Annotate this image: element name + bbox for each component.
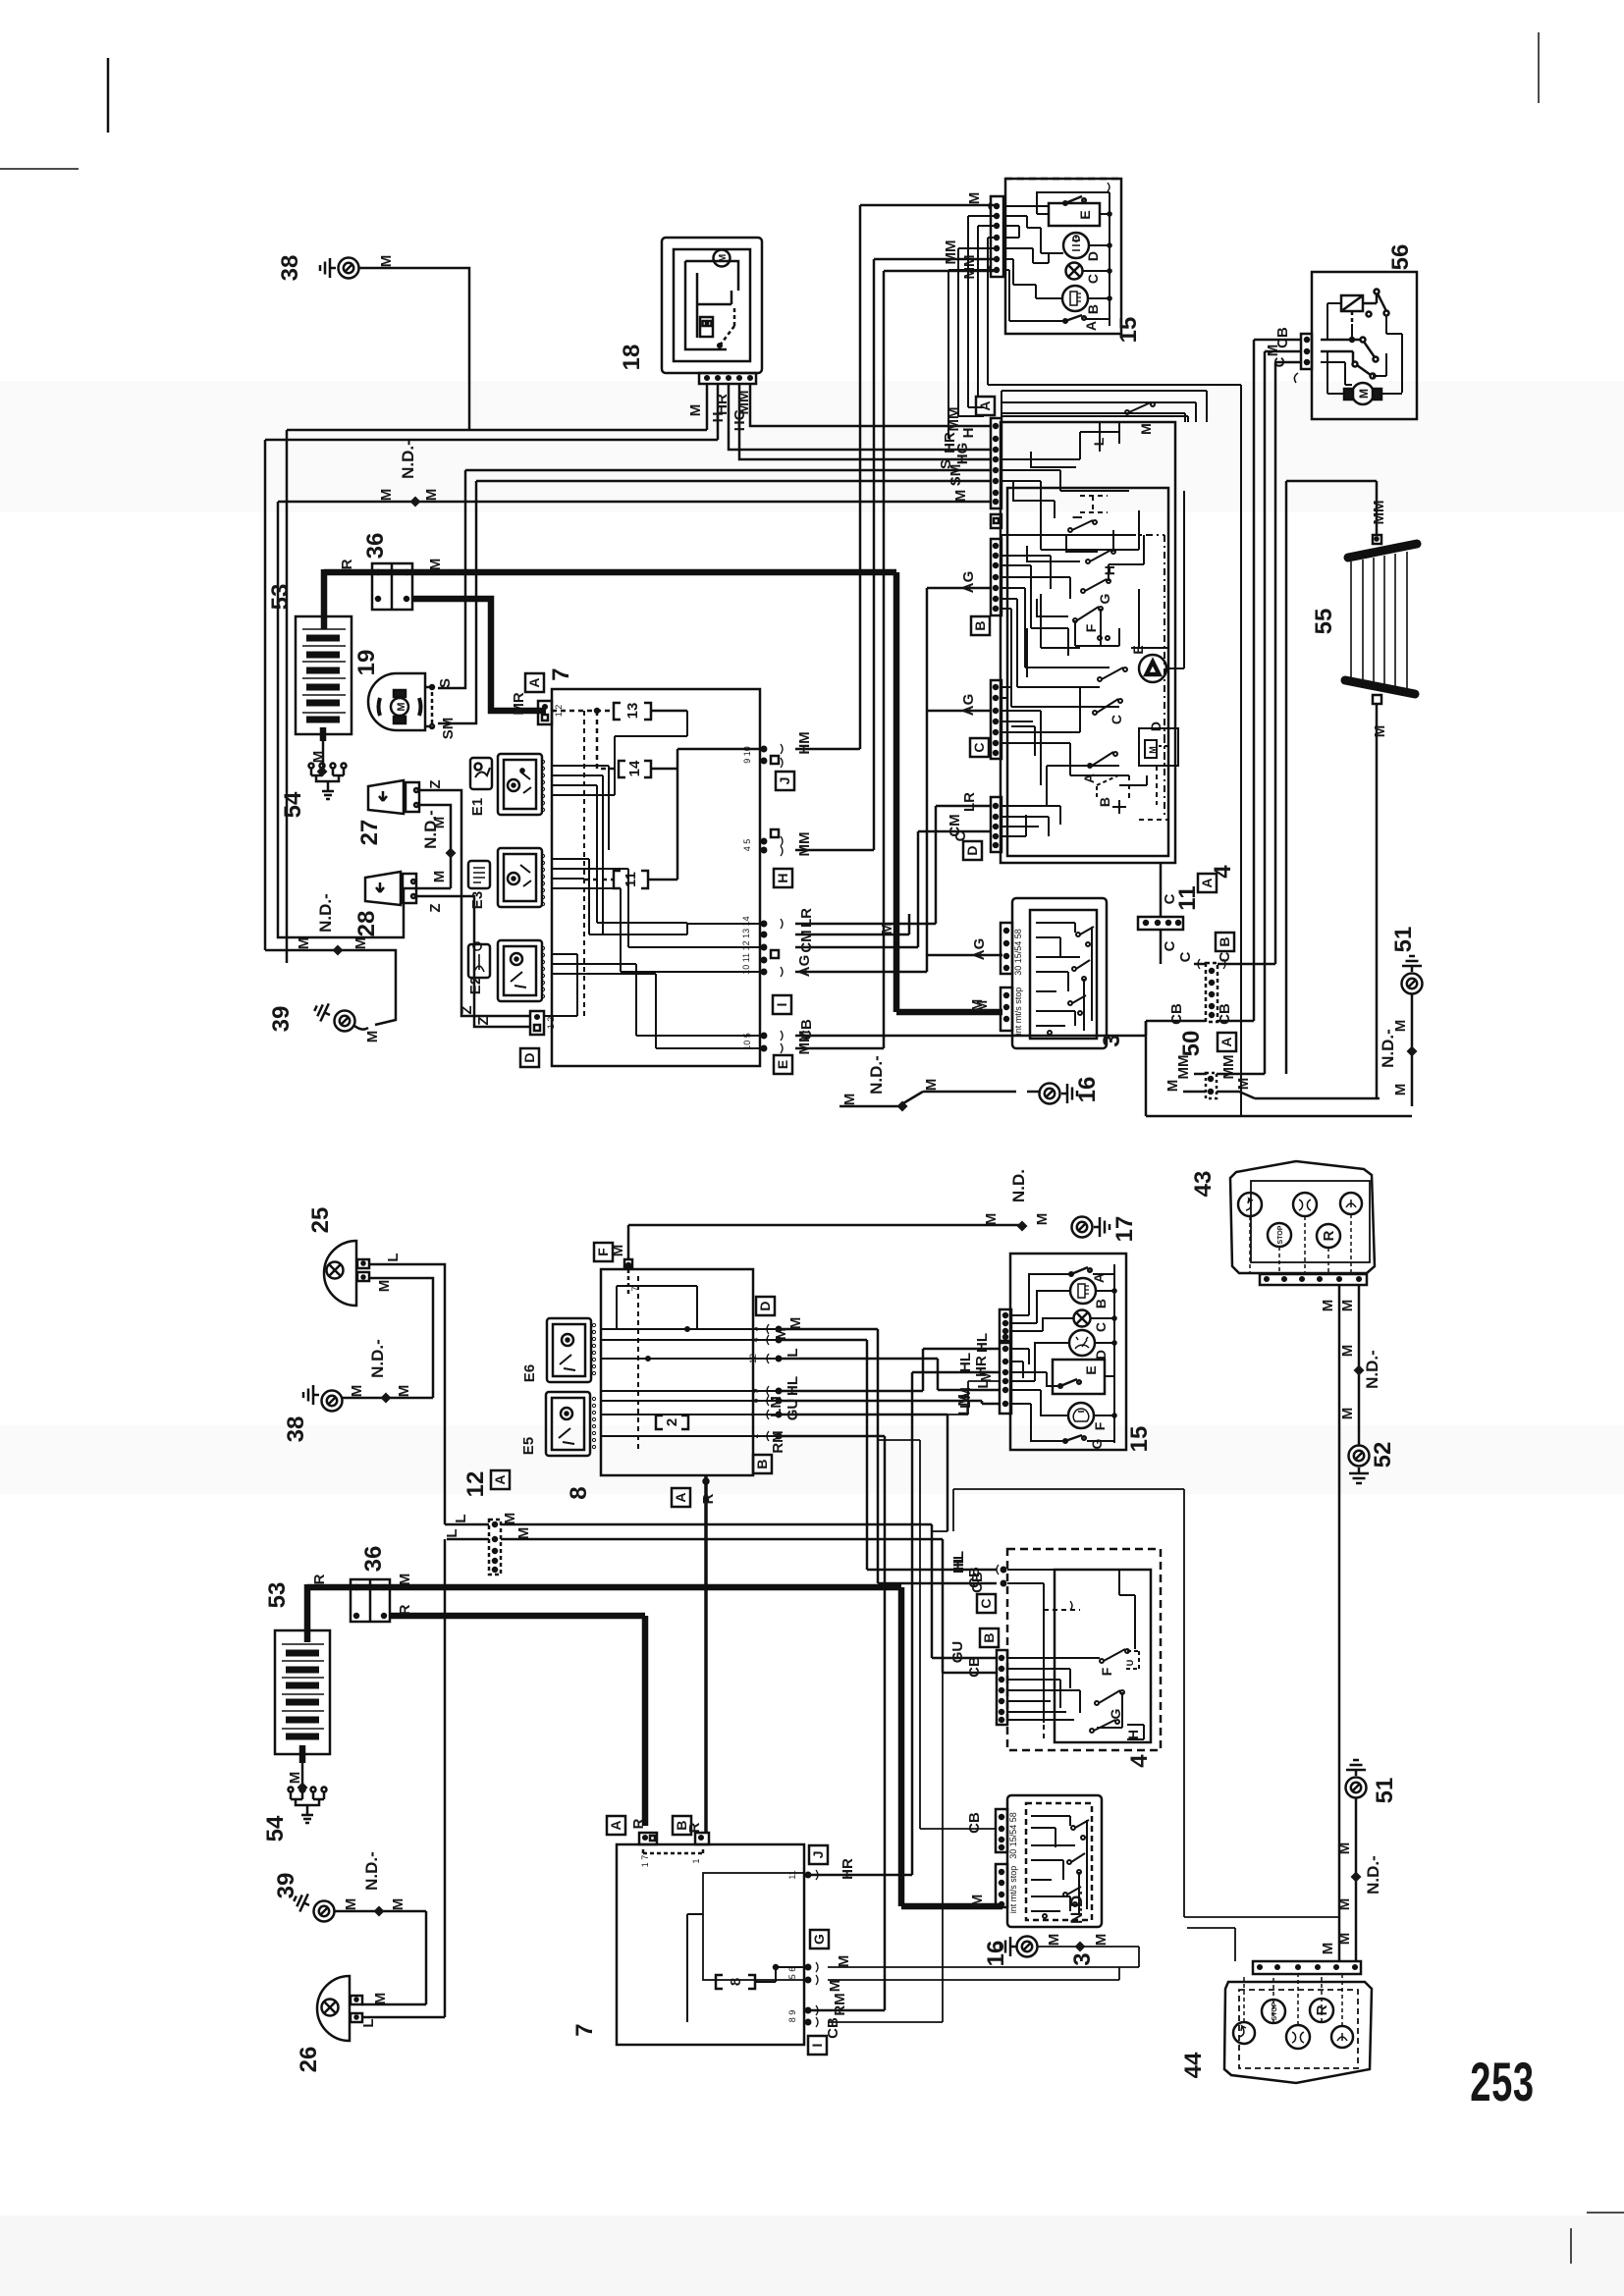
svg-text:26: 26 <box>296 2047 322 2073</box>
headlamp switch 4 (bottom) <box>950 1549 1161 1768</box>
box 7 lower pin 1-2 <box>530 1011 556 1035</box>
svg-text:HR: HR <box>714 394 731 415</box>
thick wire M bus (battery positive rail) <box>324 572 1002 1012</box>
svg-text:M: M <box>1148 746 1158 754</box>
svg-text:CB: CB <box>969 1572 986 1593</box>
svg-text:13: 13 <box>624 703 641 720</box>
wire M from 12 to switch 4 (bottom) <box>501 1524 997 1663</box>
hazard symbol E inside 4 <box>1130 491 1184 682</box>
thick wire battery feed <box>321 569 328 629</box>
thick wire MR from fuse 36 to box 7 <box>412 599 546 711</box>
wire MM from box 7 to 15 <box>795 240 995 857</box>
wire CB to 3 (bottom) <box>878 1440 996 1829</box>
svg-text:M: M <box>378 489 395 502</box>
svg-text:M: M <box>978 1370 995 1383</box>
svg-text:L: L <box>785 1348 801 1357</box>
wire SM from 19 <box>438 481 991 739</box>
crop mark top-left horizontal <box>0 168 79 170</box>
wire HL from box 8 pin 9 to cluster 15 <box>779 1333 1000 1396</box>
horn 27 <box>356 780 419 845</box>
svg-text:M: M <box>364 1031 381 1043</box>
svg-text:I: I <box>1069 515 1085 519</box>
relay box 3 (bottom) <box>966 1795 1102 1966</box>
crop mark bottom-right horizontal <box>1587 2212 1624 2214</box>
svg-text:M: M <box>349 1385 365 1398</box>
license plate lamp 26 <box>296 1976 445 2072</box>
ground point 17 <box>983 1169 1138 1242</box>
svg-text:D: D <box>1148 721 1164 731</box>
svg-text:G: G <box>811 1934 827 1945</box>
svg-text:38: 38 <box>283 1416 309 1443</box>
wire L (long vertical to lamp 26) <box>444 1539 447 2017</box>
battery 53 (top) <box>267 584 352 734</box>
instrument E5 <box>520 1392 596 1456</box>
svg-text:39: 39 <box>268 1006 295 1033</box>
svg-text:N.D.-: N.D.- <box>316 893 335 933</box>
svg-text:AG: AG <box>796 955 813 978</box>
svg-text:44: 44 <box>1180 2052 1207 2078</box>
svg-text:N.D.: N.D. <box>1009 1169 1028 1202</box>
node N.D. junction (39 net) <box>265 893 396 1042</box>
svg-text:4: 4 <box>1126 1754 1153 1768</box>
wire M from 38 <box>287 255 707 430</box>
wire S from 19 <box>437 470 991 688</box>
svg-text:CB: CB <box>966 1812 983 1834</box>
switch 4 pin block A <box>991 418 1001 528</box>
ground point 39 (top) <box>268 999 368 1032</box>
svg-text:17: 17 <box>1111 1216 1138 1243</box>
wire loop from 4 to right vertical <box>1240 385 1242 1116</box>
svg-text:N.D.-: N.D.- <box>1364 1855 1382 1895</box>
connector 50 <box>1177 951 1236 1056</box>
connector 11 C-C <box>1138 863 1234 964</box>
ground point 51 (bottom) <box>1336 1760 1398 1961</box>
svg-text:M: M <box>879 923 895 935</box>
fuse 36 (top) <box>362 533 412 610</box>
svg-text:LM: LM <box>955 1394 972 1415</box>
svg-text:53: 53 <box>267 584 294 611</box>
wire AG riser <box>795 571 1002 978</box>
fuse box 7 (top) <box>520 667 760 1067</box>
svg-text:M: M <box>1320 1300 1336 1312</box>
svg-text:2: 2 <box>750 1433 760 1438</box>
fuse 13 inside box 7 <box>552 703 687 720</box>
svg-text:54: 54 <box>262 1815 289 1842</box>
svg-text:M: M <box>1357 389 1371 399</box>
svg-text:D: D <box>521 1052 537 1062</box>
svg-text:8: 8 <box>566 1486 592 1499</box>
svg-text:A: A <box>673 1492 688 1502</box>
wire LM from box 8 pin 8 to cluster 15 <box>768 1387 1000 1417</box>
svg-text:M: M <box>966 192 983 205</box>
switch 4 lower internals <box>1001 667 1178 836</box>
svg-text:E6: E6 <box>521 1364 538 1382</box>
svg-text:C: C <box>1162 940 1178 951</box>
instrument E2 <box>467 940 545 1001</box>
node N.D. near 16 <box>839 1055 1016 1111</box>
thick wire R bus (bottom) <box>390 1616 645 1826</box>
fuse 11 inside box 7 <box>584 749 760 888</box>
svg-text:36: 36 <box>360 1546 387 1573</box>
box 7 right-edge pins 10-14 <box>741 916 783 977</box>
wires from box 8 pins <box>779 1317 997 1588</box>
svg-text:HL: HL <box>785 1376 801 1396</box>
svg-text:12: 12 <box>462 1471 489 1498</box>
svg-text:M: M <box>952 490 969 503</box>
svg-text:M: M <box>1372 725 1388 738</box>
box 8 internals <box>601 1276 776 1453</box>
wire Z from 28 <box>416 896 530 1027</box>
switch 4 pin block C <box>991 680 1001 759</box>
svg-text:H: H <box>1125 1730 1141 1739</box>
svg-text:M: M <box>396 702 407 711</box>
svg-text:H: H <box>960 428 977 439</box>
svg-text:AG: AG <box>960 571 977 594</box>
svg-text:S: S <box>437 678 454 688</box>
svg-text:R: R <box>700 1493 717 1504</box>
svg-text:E1: E1 <box>469 798 486 816</box>
svg-text:M: M <box>515 1527 532 1540</box>
svg-text:A: A <box>977 400 993 410</box>
svg-text:C: C <box>1093 1322 1109 1332</box>
thick battery feed (bottom) <box>304 1584 311 1642</box>
svg-text:C: C <box>971 742 987 752</box>
svg-text:M: M <box>376 1280 393 1293</box>
wire Z from 27 <box>419 779 530 1016</box>
svg-text:N.D.-: N.D.- <box>399 440 417 479</box>
svg-text:15: 15 <box>1126 1426 1153 1453</box>
svg-text:C: C <box>1085 274 1101 284</box>
svg-text:M: M <box>1034 1213 1051 1226</box>
connector 12 <box>444 1470 532 1575</box>
fuse box 7 (bottom) <box>571 1816 829 2055</box>
svg-text:M: M <box>1392 1084 1409 1096</box>
svg-text:A: A <box>1199 878 1215 887</box>
svg-text:SM: SM <box>440 718 457 740</box>
svg-text:39: 39 <box>273 1873 299 1899</box>
svg-text:HL: HL <box>950 1551 967 1571</box>
svg-text:F: F <box>1092 1421 1108 1430</box>
wire M/HL from box 8 pin 4 <box>773 1328 997 1574</box>
svg-text:B: B <box>754 1459 770 1468</box>
svg-text:M: M <box>423 489 440 502</box>
svg-text:CB: CB <box>966 1656 983 1678</box>
svg-text:int mt/s stop: int mt/s stop <box>1008 1866 1018 1914</box>
svg-text:M: M <box>427 559 444 571</box>
svg-text:B: B <box>1217 936 1232 946</box>
svg-text:Z: Z <box>427 779 444 788</box>
svg-text:9 10: 9 10 <box>742 746 752 764</box>
crop mark bottom-right vertical <box>1570 2228 1572 2264</box>
svg-text:4: 4 <box>1210 865 1236 879</box>
svg-text:F: F <box>1099 1667 1114 1676</box>
horn 28 <box>353 872 416 936</box>
svg-text:11: 11 <box>787 1870 797 1879</box>
svg-text:54: 54 <box>280 791 306 818</box>
svg-text:30 15/54 58: 30 15/54 58 <box>1008 1812 1018 1859</box>
wire M from 43 to ground 52 <box>1339 1285 1381 1445</box>
svg-text:8: 8 <box>750 1398 760 1403</box>
svg-text:MM: MM <box>796 832 813 857</box>
svg-text:B: B <box>1085 304 1101 314</box>
svg-text:M: M <box>983 1213 1000 1226</box>
earth strap junction 54 (top) <box>280 764 347 819</box>
wire M from 27 / N.D. junction to 28 <box>417 805 457 888</box>
boundary wire loop right side <box>953 1489 1339 1961</box>
svg-text:1 2: 1 2 <box>546 1017 556 1030</box>
svg-text:B: B <box>972 620 988 630</box>
svg-text:M: M <box>378 255 395 268</box>
svg-text:MR: MR <box>511 692 527 715</box>
instrument E1 <box>469 754 545 816</box>
wire HR riser to 15 (bottom) <box>807 1356 1000 1880</box>
svg-text:C: C <box>978 1598 994 1608</box>
svg-text:GU: GU <box>949 1641 966 1664</box>
svg-text:E5: E5 <box>520 1437 537 1455</box>
svg-text:HM: HM <box>796 731 813 754</box>
svg-text:M: M <box>287 1772 303 1785</box>
wire LR from box 7 to switch 4 <box>795 792 991 928</box>
svg-text:253: 253 <box>1470 2053 1535 2113</box>
svg-text:56: 56 <box>1387 244 1414 271</box>
svg-text:25: 25 <box>307 1207 334 1234</box>
battery negative lead to 54 <box>310 727 327 772</box>
wire labels near component 4 pins <box>938 407 977 503</box>
wire CB from connector 12 to switch 4 (bottom) <box>501 1539 997 1678</box>
wire M from 25 <box>369 1278 433 1398</box>
svg-text:M: M <box>610 1245 626 1257</box>
dash panel unit 8 <box>566 1225 1022 1507</box>
thick wire M bus (bottom) <box>307 1587 1002 1906</box>
svg-text:A: A <box>1081 774 1097 783</box>
svg-text:8 9: 8 9 <box>787 2010 797 2023</box>
ground point 51 (top) <box>1379 927 1423 1106</box>
switch 4 pin block B <box>991 539 1001 615</box>
svg-text:3: 3 <box>750 1326 760 1331</box>
svg-text:D: D <box>964 845 980 855</box>
node N.D. junction (left, top) wire <box>286 430 289 963</box>
svg-text:CM: CM <box>798 930 815 952</box>
box 7 right-edge pins 9,10 <box>742 744 783 768</box>
svg-text:38: 38 <box>277 255 303 282</box>
svg-text:1: 1 <box>691 1858 701 1863</box>
svg-text:D: D <box>757 1301 773 1310</box>
svg-text:HL: HL <box>957 1353 974 1372</box>
svg-text:GU: GU <box>785 1399 801 1421</box>
wire labels R / M on bottom buses <box>311 1574 986 1907</box>
svg-text:M: M <box>687 404 704 417</box>
svg-text:M: M <box>397 1574 413 1586</box>
fuse 14 inside box 7 <box>597 711 677 777</box>
wire labels R / M on bus <box>339 559 986 1012</box>
svg-text:M: M <box>352 937 369 950</box>
svg-text:55: 55 <box>1311 609 1337 635</box>
svg-text:G: G <box>1108 1708 1123 1719</box>
svg-text:Z: Z <box>427 903 444 912</box>
svg-text:M: M <box>1336 1898 1353 1911</box>
svg-text:3: 3 <box>1069 1952 1096 1965</box>
bottom bus of top diagram <box>1146 1021 1412 1116</box>
svg-text:27: 27 <box>356 820 383 846</box>
svg-text:M: M <box>1046 1934 1062 1947</box>
svg-text:15: 15 <box>1115 317 1142 344</box>
ground point 52 <box>1349 1442 1397 1483</box>
tail lamp cluster 44 <box>1180 1961 1372 2083</box>
svg-text:M: M <box>923 1079 940 1092</box>
svg-text:M: M <box>1320 1943 1336 1955</box>
svg-text:M: M <box>718 254 729 262</box>
svg-text:36: 36 <box>362 533 389 560</box>
svg-text:14: 14 <box>626 760 643 776</box>
svg-text:19: 19 <box>353 650 380 676</box>
connector MM-M <box>1164 1055 1380 1099</box>
wire M from box 7 (bottom) to ground 16 <box>827 1947 1139 1992</box>
ground point 38 (top) <box>277 255 359 282</box>
ground point 16 (bottom) <box>983 1891 1110 1966</box>
wire M to 15 (bottom) <box>947 1370 1000 1415</box>
svg-text:M: M <box>431 871 448 883</box>
svg-text:AG: AG <box>960 694 977 717</box>
battery negative lead to 54 (bottom) <box>287 1745 303 1788</box>
crop mark top-right vertical <box>1538 32 1540 103</box>
svg-text:M: M <box>969 1895 986 1907</box>
svg-text:M: M <box>390 1898 406 1911</box>
svg-text:M: M <box>1336 1842 1353 1855</box>
instrument cluster 15 (bottom) <box>955 1254 1153 1452</box>
svg-text:M: M <box>1339 1408 1356 1420</box>
svg-text:CB: CB <box>1168 1003 1185 1025</box>
svg-text:N.D.-: N.D.- <box>421 810 440 849</box>
svg-text:7: 7 <box>571 2023 598 2036</box>
svg-text:A: A <box>1083 321 1099 331</box>
wire CB from 56 down right side <box>1233 340 1301 1021</box>
svg-text:RM: RM <box>770 1430 786 1453</box>
svg-text:STOP: STOP <box>1277 1225 1284 1244</box>
svg-text:M: M <box>1093 1934 1110 1947</box>
svg-text:CB: CB <box>798 1019 815 1041</box>
svg-text:N.D.-: N.D.- <box>368 1339 387 1378</box>
wire CB from box 7 to connector 50 <box>795 1003 1194 1041</box>
svg-text:J: J <box>777 777 792 785</box>
svg-text:51: 51 <box>1372 1778 1398 1804</box>
svg-text:M: M <box>827 1980 843 1993</box>
svg-text:H: H <box>775 873 790 882</box>
svg-text:I: I <box>774 1003 789 1007</box>
svg-text:A: A <box>526 677 542 687</box>
svg-text:C: C <box>1177 951 1194 962</box>
boxed letters on box 7 right edge <box>773 772 794 1074</box>
wire R from box 8 down to box 7 (bottom) <box>700 1475 717 1833</box>
instrument E3 <box>468 848 545 909</box>
switch 4 internals (top) <box>1001 391 1207 707</box>
svg-text:U: U <box>1125 1660 1135 1667</box>
svg-text:L: L <box>385 1253 402 1261</box>
svg-text:F: F <box>1083 623 1099 632</box>
connector strip of 18 <box>699 373 756 384</box>
svg-text:M: M <box>310 751 327 764</box>
svg-text:10 5: 10 5 <box>742 1033 752 1050</box>
svg-text:18: 18 <box>619 345 645 371</box>
svg-text:5 6: 5 6 <box>787 1967 797 1980</box>
wire L from 25 <box>369 1253 445 1524</box>
svg-text:12: 12 <box>748 1354 758 1363</box>
svg-text:MM: MM <box>1220 1055 1237 1080</box>
wire M N.D. net (py 511) <box>278 440 991 937</box>
svg-text:E: E <box>1130 645 1146 654</box>
svg-text:N.D.-: N.D.- <box>362 1851 381 1891</box>
svg-text:G: G <box>1097 593 1112 604</box>
svg-text:Z: Z <box>475 1016 492 1025</box>
svg-text:M: M <box>1164 1080 1181 1093</box>
svg-text:4 5: 4 5 <box>742 839 752 852</box>
svg-text:R: R <box>1321 1230 1337 1241</box>
svg-text:M: M <box>502 1513 518 1525</box>
svg-text:I: I <box>809 2044 825 2048</box>
svg-text:B: B <box>1093 1299 1109 1308</box>
box 7 pin 1-2 (MR input) <box>538 701 564 724</box>
svg-text:M: M <box>787 1317 804 1330</box>
svg-text:B: B <box>981 1632 997 1642</box>
svg-text:MM: MM <box>735 391 752 415</box>
svg-text:R: R <box>311 1574 328 1584</box>
svg-text:R: R <box>397 1604 413 1615</box>
svg-text:M: M <box>974 1000 991 1013</box>
svg-text:MM: MM <box>943 240 959 265</box>
svg-text:L: L <box>1091 437 1107 446</box>
svg-text:int mt/s stop: int mt/s stop <box>1013 988 1023 1036</box>
svg-text:M: M <box>396 1385 412 1398</box>
svg-text:B: B <box>1097 797 1112 807</box>
svg-text:53: 53 <box>264 1582 291 1609</box>
svg-text:M: M <box>773 1328 789 1341</box>
svg-text:LR: LR <box>961 792 978 812</box>
wire CB from box 7 (bottom) <box>825 1673 943 2039</box>
wire M from 43 to 44 <box>1320 1285 1339 1961</box>
svg-text:E3: E3 <box>469 891 486 909</box>
interconnect verticals (bottom middle) <box>932 1530 947 1532</box>
connector pins of 56 <box>1265 327 1312 383</box>
svg-text:52: 52 <box>1370 1442 1396 1468</box>
svg-text:F: F <box>595 1248 611 1256</box>
svg-text:D: D <box>1093 1350 1109 1360</box>
svg-text:7: 7 <box>548 667 574 680</box>
svg-text:MM: MM <box>1371 501 1387 525</box>
wire RM from box 8 pin 2 to box 7 (bottom) <box>770 1430 885 2015</box>
svg-text:C: C <box>1109 715 1124 724</box>
svg-text:C: C <box>1217 951 1233 962</box>
svg-text:E: E <box>1077 210 1093 219</box>
battery 53 (bottom) <box>264 1582 330 1754</box>
svg-text:RM: RM <box>832 1993 848 2015</box>
instrument cluster 15 (top) <box>989 179 1142 343</box>
wire M from box 7 <box>795 914 909 934</box>
svg-text:16: 16 <box>983 1941 1009 1967</box>
instrument E6 <box>521 1318 596 1382</box>
headlamp switch 4 (top) <box>963 397 1236 892</box>
svg-text:M: M <box>1235 1078 1252 1091</box>
svg-text:MM: MM <box>961 255 978 280</box>
svg-text:M: M <box>1138 423 1154 435</box>
svg-text:50: 50 <box>1178 1031 1205 1057</box>
radiator fan assembly 55 <box>1286 481 1417 1098</box>
wire HM from box 7 to 15 <box>795 192 995 755</box>
svg-text:N.D.-: N.D.- <box>1363 1350 1381 1389</box>
wiper motor 19 <box>353 650 434 730</box>
svg-text:AG: AG <box>971 938 988 961</box>
svg-text:M: M <box>841 1094 858 1106</box>
wire MM from box 7 bottom to 15 <box>795 255 995 1055</box>
svg-text:CB: CB <box>825 2017 841 2039</box>
